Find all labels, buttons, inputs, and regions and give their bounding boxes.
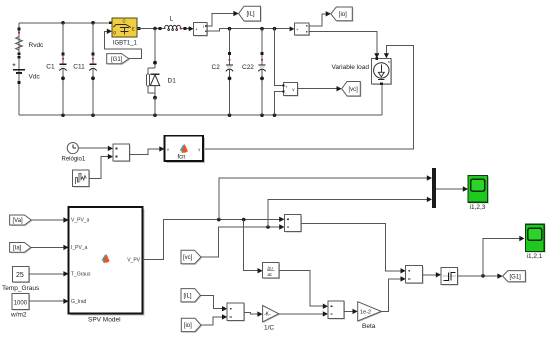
inductor L — [159, 15, 192, 30]
node V_PV to mux branch — [217, 218, 221, 222]
constant 25 Temp_Graus — [2, 266, 40, 292]
wire left vertical — [18, 23, 20, 115]
svg-text:Temp_Graus: Temp_Graus — [2, 285, 40, 292]
node C1 bottom junction — [61, 113, 65, 117]
constant 1000 w/m2 — [10, 294, 30, 319]
wire IGBT output — [137, 28, 159, 30]
Goto tag [vc] — [342, 82, 362, 98]
wire sum1 to sum3 — [301, 223, 401, 270]
node C2 bottom junction — [228, 113, 232, 117]
svg-text:[iL]: [iL] — [247, 12, 255, 18]
svg-text:i: i — [203, 24, 204, 29]
wire gate feedback from [G1] — [105, 31, 142, 58]
sum block 2 — [328, 301, 345, 319]
Goto tag [G1] — [503, 271, 527, 283]
svg-text:25: 25 — [16, 272, 24, 279]
wire meas1 to [iL] goto — [207, 14, 234, 27]
wire mux bar to scope i1,2,3 — [436, 188, 463, 190]
svg-text:[Va]: [Va] — [13, 218, 24, 224]
Goto tag [iL] — [239, 6, 262, 22]
current measurement block 1 — [189, 23, 208, 37]
svg-text:w/m2: w/m2 — [10, 312, 27, 319]
resistor Rvdc — [16, 28, 44, 55]
svg-text:y: y — [198, 147, 200, 152]
From tag [vc] lower — [181, 250, 202, 265]
capacitor C1 — [46, 23, 66, 115]
relay block — [441, 268, 459, 286]
Goto tag [io] — [331, 7, 353, 22]
gain Beta 1e-2 — [358, 302, 383, 330]
capacitor C22 — [242, 29, 266, 116]
capacitor C2 — [212, 29, 234, 116]
svg-text:Rvdc: Rvdc — [29, 42, 45, 49]
mux bar (scope mux) — [432, 168, 436, 208]
wire 1000 to SPV — [29, 300, 64, 302]
node D1 bottom junction — [153, 113, 157, 117]
svg-text:V_PV: V_PV — [127, 257, 140, 263]
wire vc to scope mux — [268, 199, 427, 227]
wire signal builder to mux — [89, 157, 108, 179]
wire voltage meter minus to bottom bus — [275, 91, 284, 115]
svg-text:[io]: [io] — [339, 12, 347, 18]
wire vc to sum1 minus — [201, 227, 280, 257]
node voltage tap — [273, 27, 277, 31]
svg-text:Beta: Beta — [362, 323, 376, 330]
wire sum4 to gain 1/C — [244, 312, 258, 314]
capacitor C11 — [73, 23, 96, 115]
controlled current source Variable load — [332, 57, 393, 85]
svg-text:G_Irad: G_Irad — [71, 299, 87, 305]
wire Va to SPV — [31, 219, 64, 221]
svg-text:[vc]: [vc] — [349, 87, 359, 93]
svg-text:[iL]: [iL] — [184, 294, 192, 300]
svg-text:[Ia]: [Ia] — [13, 246, 22, 252]
wire voltage tap vertical — [275, 29, 284, 86]
svg-text:i1,2,1: i1,2,1 — [527, 253, 543, 260]
svg-text:V_PV_a: V_PV_a — [71, 218, 90, 224]
wire mux to fcn — [130, 149, 160, 155]
wire variable load to bottom bus — [381, 85, 383, 116]
svg-text:C1: C1 — [46, 63, 55, 70]
wire meas1 output bus to meas2 — [207, 29, 290, 32]
DC voltage source Vdc — [13, 56, 41, 84]
svg-text:D1: D1 — [168, 78, 177, 85]
svg-text:C22: C22 — [242, 64, 254, 71]
svg-text:fcn: fcn — [178, 155, 186, 161]
svg-text:1e-2: 1e-2 — [360, 310, 371, 316]
wire bottom bus — [19, 114, 382, 116]
wire Beta to sum3 — [381, 279, 401, 312]
clock Relogio1 — [62, 143, 86, 163]
mux block (2 input) — [113, 144, 131, 162]
wire io to sum4 — [201, 317, 222, 325]
svg-text:i1,2,3: i1,2,3 — [470, 204, 486, 211]
svg-text:SPV Model: SPV Model — [88, 316, 121, 323]
node V_PV to derivative branch — [242, 218, 246, 222]
wire 25 to SPV — [29, 273, 64, 275]
node C11 bottom junction — [91, 113, 95, 117]
From tag [Va] — [10, 215, 33, 226]
node voltage meter bottom junction — [273, 113, 277, 117]
svg-text:Relógio1: Relógio1 — [62, 157, 86, 163]
svg-text:s: s — [388, 60, 390, 64]
gain 1/C — [263, 306, 280, 332]
svg-text:[G1]: [G1] — [510, 274, 522, 280]
From tag [io] lower — [181, 318, 202, 332]
current measurement block 2 — [290, 23, 310, 36]
voltage measurement block — [283, 82, 299, 96]
From tag [G1] — [107, 54, 130, 65]
scope i1,2,3 — [468, 175, 489, 211]
svg-text:1000: 1000 — [14, 300, 28, 306]
wire top bus left — [19, 22, 109, 24]
node C22 top — [260, 27, 264, 31]
scope i1,2,1 — [526, 224, 546, 260]
IGBT U1 block IGBT1_1 — [109, 18, 140, 46]
sum block 1 (Vpv - vc) — [284, 214, 302, 232]
sum block 4 (iL - io) — [227, 303, 245, 322]
svg-text:C11: C11 — [73, 63, 85, 70]
svg-text:L: L — [170, 15, 174, 22]
wire V_PV to derivative — [244, 220, 258, 271]
wire iL to sum4 — [200, 295, 222, 308]
node vc to scope mux branch — [266, 225, 270, 229]
svg-text:Δu: Δu — [267, 266, 273, 271]
wire V_PV output — [143, 220, 280, 260]
wire fcn output to variable load s input — [203, 46, 413, 149]
wire gain to sum2 — [279, 313, 324, 315]
signal builder block — [72, 170, 90, 187]
wire meas2 to variable load plus — [309, 32, 377, 54]
wire clock to mux — [78, 147, 108, 149]
svg-text:T_Graus: T_Graus — [71, 272, 91, 278]
wire sum3 to relay — [423, 274, 437, 276]
diode D1 — [146, 29, 176, 116]
svg-text:IGBT1_1: IGBT1_1 — [113, 40, 138, 46]
node C11 top junction — [91, 21, 95, 25]
wire meas2 to [io] goto — [309, 14, 326, 26]
subsystem SPV Model — [69, 207, 145, 323]
node C1 top junction — [61, 21, 65, 25]
wire V_PV to scope mux — [219, 178, 427, 220]
wire relay output junction — [458, 275, 498, 277]
wire vmeas to [vc] goto — [297, 88, 336, 90]
wire relay to scope i1,2,1 — [483, 239, 520, 276]
svg-text:Variable load: Variable load — [332, 64, 370, 71]
svg-text:-K-: -K- — [264, 312, 271, 318]
wire sum2 to Beta — [344, 310, 353, 312]
MATLAB function block fcn — [165, 136, 206, 163]
svg-text:Vdc: Vdc — [29, 74, 41, 81]
node after IGBT — [153, 27, 157, 31]
svg-text:C2: C2 — [212, 64, 221, 71]
wire Ia to SPV — [31, 246, 64, 248]
From tag [iL] lower — [181, 289, 201, 303]
svg-text:1/C: 1/C — [264, 325, 274, 332]
wire derivative to sum2 — [279, 271, 323, 307]
svg-text:E: E — [132, 27, 135, 32]
node C22 bottom junction — [260, 113, 264, 117]
svg-text:[io]: [io] — [184, 323, 192, 329]
sum block 3 — [406, 265, 424, 284]
svg-text:I_PV_a: I_PV_a — [71, 245, 88, 251]
From tag [Ia] — [10, 243, 32, 254]
svg-text:[vc]: [vc] — [183, 255, 193, 261]
derivative block du/dt — [263, 263, 280, 280]
svg-text:[G1]: [G1] — [111, 57, 123, 63]
node C2 top — [228, 27, 232, 31]
svg-text:u: u — [167, 147, 169, 152]
